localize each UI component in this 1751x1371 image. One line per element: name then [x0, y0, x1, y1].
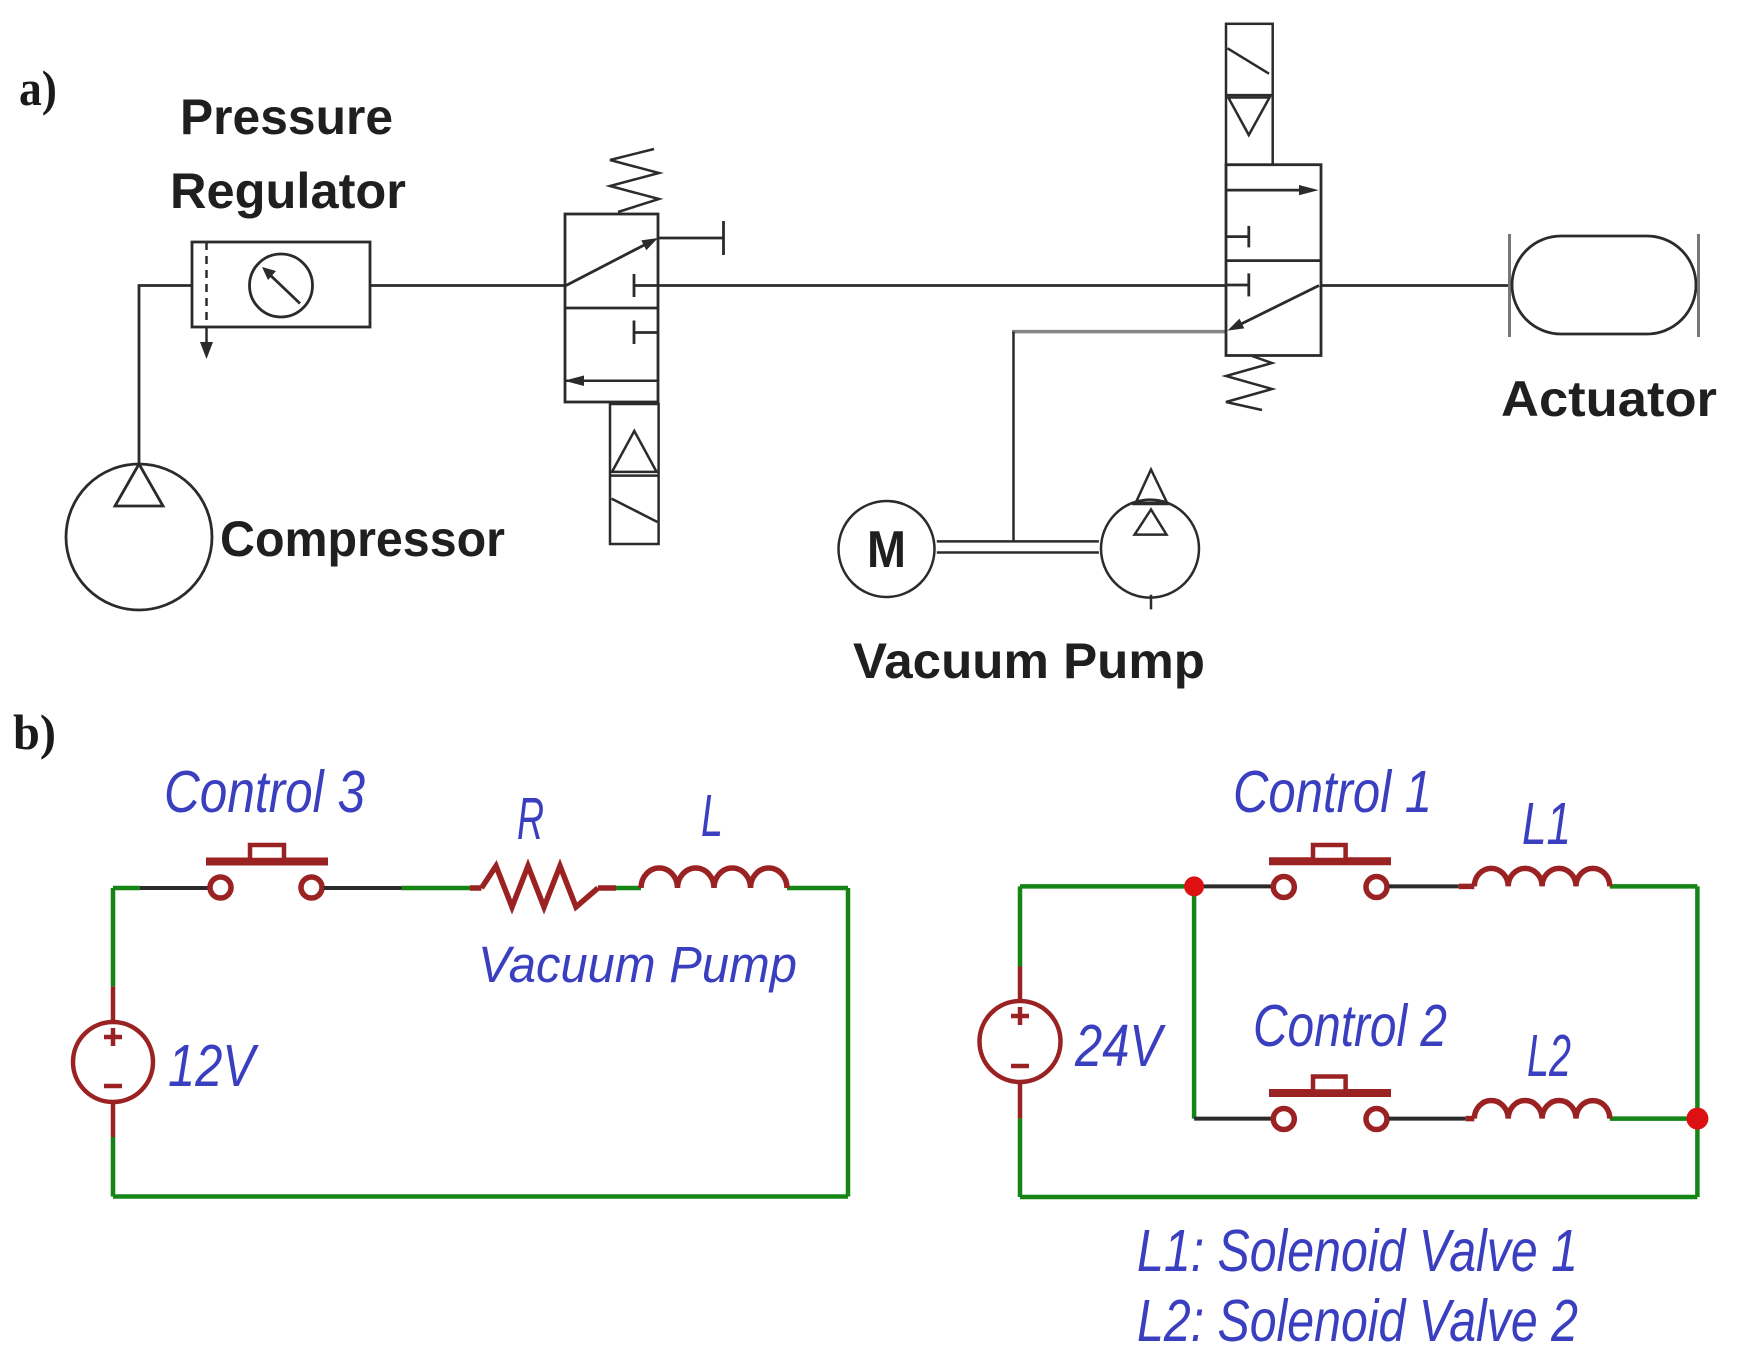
vacuum pump inner triangle [1135, 510, 1167, 535]
pressure regulator relief arrow [200, 327, 213, 359]
wire valve V1 to valve V2 [658, 284, 1226, 287]
svg-text:R: R [517, 786, 544, 852]
svg-text:Regulator: Regulator [170, 163, 406, 219]
inductor L1 [1474, 868, 1610, 886]
svg-text:L1: Solenoid Valve 1: L1: Solenoid Valve 1 [1137, 1218, 1578, 1284]
junction node dot right [1686, 1108, 1708, 1130]
motor M circle [839, 501, 935, 597]
wire black after switch [324, 886, 402, 890]
valve V1 flow path arrow [566, 242, 650, 286]
valve V2 spring [1226, 356, 1272, 410]
vacuum pump circle [1101, 500, 1199, 598]
valve V1 body [565, 214, 658, 402]
wire regulator to valve V1 [370, 284, 565, 287]
vacuum pump outer triangle [1132, 470, 1169, 505]
actuator capsule [1512, 236, 1696, 334]
valve V1 blocked port bottom [634, 321, 658, 345]
junction node dot top [1184, 876, 1204, 896]
vacuum pump bottom stub [1150, 595, 1153, 610]
svg-text:Vacuum Pump: Vacuum Pump [853, 633, 1205, 689]
voltage source V2 24V [980, 967, 1061, 1119]
pressure regulator body [192, 242, 370, 327]
vacuum line to valve V2 [1012, 330, 1226, 334]
svg-text:L2: L2 [1527, 1023, 1571, 1089]
svg-text:Control 1: Control 1 [1233, 759, 1432, 825]
inductor L2 [1474, 1101, 1610, 1119]
valve V1 exhaust arrow [565, 379, 658, 382]
wire regulator to compressor [139, 286, 192, 465]
actuator left plate [1508, 234, 1511, 337]
wire vacuum pump riser [1012, 332, 1015, 542]
wire black row1 after switch [1389, 884, 1459, 888]
push button Control 2 [1273, 1109, 1387, 1130]
svg-text:12V: 12V [168, 1033, 259, 1099]
valve V1 spring [610, 149, 659, 212]
valve V2 body [1226, 165, 1321, 356]
svg-text:a): a) [19, 60, 57, 116]
voltage source V1 12V [73, 986, 153, 1137]
svg-text:Pressure: Pressure [180, 89, 393, 145]
svg-text:M: M [867, 521, 906, 579]
valve V2 blocked port top [1226, 226, 1249, 248]
svg-text:24V: 24V [1074, 1013, 1166, 1079]
svg-text:L1: L1 [1522, 791, 1571, 857]
push button Control 1 [1273, 877, 1387, 898]
compressor triangle [115, 464, 163, 506]
valve V1 pilot port [658, 221, 724, 255]
wire green right circuit rails [1020, 886, 1697, 1197]
svg-text:Compressor: Compressor [220, 511, 505, 567]
motor shaft [937, 541, 1099, 552]
valve V1 blocked port top [634, 274, 658, 297]
pressure regulator gauge [250, 254, 313, 317]
wire black row2 [1194, 1117, 1271, 1121]
valve V1 solenoid [610, 404, 659, 544]
wire black to switch [140, 886, 209, 890]
valve V2 flow path arrow [1235, 286, 1319, 328]
wire valve V2 to actuator [1321, 284, 1509, 287]
svg-text:L2: Solenoid Valve 2: L2: Solenoid Valve 2 [1137, 1288, 1578, 1354]
actuator right plate [1697, 234, 1700, 337]
svg-text:L: L [701, 783, 723, 849]
pressure regulator dashed diaphragm line [205, 242, 208, 327]
valve V2 solenoid [1226, 24, 1273, 165]
push button Control 3 [210, 877, 322, 898]
wire black row2 after switch [1389, 1117, 1466, 1121]
svg-text:Actuator: Actuator [1501, 371, 1717, 427]
svg-text:Vacuum Pump: Vacuum Pump [478, 936, 797, 993]
svg-text:Control 2: Control 2 [1253, 993, 1447, 1059]
wire green left rail [113, 888, 848, 1197]
inductor L [641, 868, 787, 888]
valve V2 top flow arrow [1226, 189, 1312, 192]
svg-text:Control 3: Control 3 [164, 759, 365, 825]
svg-text:b): b) [13, 704, 56, 760]
valve V2 blocked port bottom [1226, 273, 1249, 296]
compressor circle [66, 464, 212, 610]
wire black row1 [1204, 884, 1272, 888]
resistor R [470, 866, 616, 907]
